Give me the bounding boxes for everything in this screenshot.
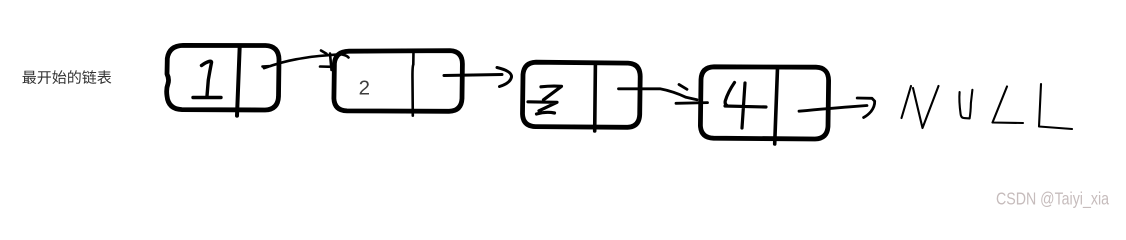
node N4 divider (775, 68, 778, 144)
svg-text:CSDN @Taiyi_xia: CSDN @Taiyi_xia (996, 189, 1109, 210)
NULL letter U (959, 90, 972, 119)
arrow N3 to N4 (619, 85, 708, 104)
node N4 value: handwritten 4 (725, 83, 766, 129)
NULL letter L (angled) (993, 87, 1024, 124)
arrow N4 to NULL (799, 98, 875, 118)
node N1 box (167, 45, 279, 110)
node N3 divider (593, 64, 597, 131)
node N4 box (700, 67, 828, 139)
NULL letter N (902, 86, 939, 128)
svg-text:2: 2 (359, 76, 370, 99)
node N2 divider (411, 50, 414, 115)
arrow N2 to N3 (444, 68, 512, 87)
node N3 value: handwritten 3 (528, 86, 562, 114)
node N3 box (523, 62, 641, 127)
node N2 box (334, 51, 463, 112)
node N1 value: handwritten 1 (193, 61, 221, 97)
label: 最开始的链表 (23, 70, 112, 84)
arrow N1 to N2 (263, 51, 349, 71)
NULL letter L (1039, 84, 1072, 129)
node N1 divider (237, 47, 240, 116)
